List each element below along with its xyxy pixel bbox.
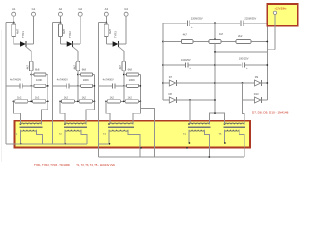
wire common to bottom bus (140, 108, 154, 157)
T5 secondary coil (225, 130, 240, 131)
svg-text:4k7: 4k7 (118, 65, 122, 70)
svg-text:1k2: 1k2 (35, 96, 40, 100)
svg-text:4M7: 4M7 (62, 28, 66, 34)
wire between 1k2s (28, 100, 33, 102)
cathode wire (26, 43, 34, 45)
T1 core line 1 (19, 125, 42, 127)
wire cap to 100k (22, 85, 34, 87)
capacitor C4 plate (241, 62, 243, 67)
node 1k2 left (13, 101, 15, 103)
T1 secondary coil (20, 130, 36, 131)
left rail (5, 23, 7, 144)
resistor 6k8 ch2 (81, 73, 93, 76)
secondary return wire (6, 143, 87, 145)
wire supply to rail (267, 49, 275, 51)
svg-text:4n7/400V: 4n7/400V (57, 77, 68, 81)
wire between 1k2s (120, 100, 125, 102)
node stem/100k (30, 85, 32, 87)
left rail (52, 23, 54, 144)
svg-text:1k2: 1k2 (17, 96, 22, 100)
resistor 4k7 ch2 (76, 61, 80, 71)
T2 core line 2 (64, 127, 87, 129)
svg-text:4n7/400V: 4n7/400V (103, 77, 114, 81)
svg-text:220M/35V: 220M/35V (244, 16, 256, 20)
highlighted transformer block (15, 121, 251, 148)
anode wire (106, 43, 112, 45)
T2 primary dot (64, 123, 66, 125)
svg-text:100K: 100K (129, 78, 135, 82)
svg-text:1k2: 1k2 (110, 96, 115, 100)
D10 cathode bar (261, 97, 263, 103)
wire A1 down (13, 16, 15, 22)
svg-text:100K: 100K (83, 78, 89, 82)
wire rail to capacitor (6, 85, 20, 87)
terminal G2 (78, 12, 82, 16)
wire rail to capacitor (98, 85, 112, 87)
svg-text:1k2: 1k2 (64, 96, 69, 100)
wire D7 to column (176, 82, 215, 84)
wire D10 to rail (262, 99, 268, 101)
node 1k2 left (59, 101, 61, 103)
wire 100k right (46, 85, 48, 87)
node right leg/100k (94, 85, 96, 87)
capacitor C1 220M/35V plate (186, 20, 188, 26)
gate wire down (30, 51, 32, 61)
node D9 row (242, 82, 244, 84)
terminal A3 (104, 12, 108, 16)
resistor 1k2a ch3 (107, 100, 120, 103)
resistor 4k7 osc (181, 40, 193, 44)
node column 52 (214, 51, 216, 53)
node stem/100k (77, 85, 79, 87)
node column/D8 (214, 99, 216, 101)
T4 core line 1 (188, 125, 210, 127)
stem down (77, 71, 79, 102)
wire 1k2b right (138, 100, 140, 102)
svg-text:TYR1: TYR1 (21, 31, 25, 38)
primary feed fan T4 T5 (209, 113, 224, 124)
wire to 6k8 (124, 74, 127, 76)
node D8/T4 (189, 99, 191, 101)
capacitor plate (68, 83, 70, 88)
junction strip bottom a (140, 147, 142, 149)
node stem/100k (123, 85, 125, 87)
wire to left rail (98, 22, 106, 24)
resistor 100K ch1 (34, 84, 46, 87)
trimmer 1M (209, 40, 221, 44)
resistor 4M7 ch1 (12, 24, 16, 37)
wire resistor to anode (13, 37, 15, 44)
svg-text:A2: A2 (59, 7, 63, 11)
D8 cathode bar (175, 97, 177, 103)
svg-text:D7: D7 (169, 75, 173, 79)
right supply rail (266, 23, 268, 100)
T4 secondary dot (189, 142, 191, 144)
resistor 4M7 ch3 (104, 24, 108, 37)
node rail/C4 (266, 64, 268, 66)
node right leg/100k (139, 85, 141, 87)
resistor 4k7 ch3 (122, 61, 126, 71)
T4 secondary coil (189, 130, 204, 131)
wire G2 down (79, 16, 81, 44)
svg-text:D7, D8, D9, D10 - 1N4148: D7, D8, D9, D10 - 1N4148 (252, 111, 289, 115)
T5 core line 2 (224, 127, 246, 129)
T4 T5 secondary right legs (204, 130, 209, 157)
node rail/2k2 (266, 41, 268, 43)
top supply wire mid (190, 22, 240, 24)
T3 secondary left link (98, 143, 109, 145)
T1 primary coil (20, 123, 41, 124)
stem down (123, 71, 125, 102)
thyristor TYR2 (67, 41, 73, 46)
resistor 1k2a ch1 (15, 100, 28, 103)
resistor 1k2a ch2 (61, 100, 74, 103)
gate wire down (123, 51, 125, 61)
thyristor cathode bar (72, 41, 74, 47)
wire between 1k2s (75, 100, 80, 102)
terminal G3 (124, 12, 128, 16)
T3 core line 2 (108, 127, 134, 129)
svg-text:100/25V: 100/25V (181, 58, 191, 62)
T4 secondary left leg (188, 130, 190, 143)
wire resistor to anode (105, 37, 107, 44)
wire resistor to anode (59, 37, 61, 44)
wire supply down (274, 15, 276, 50)
svg-text:220M/35V: 220M/35V (191, 16, 203, 20)
T5 core line 1 (224, 125, 246, 127)
svg-text:4k7: 4k7 (72, 65, 76, 70)
resistor 6k8 ch3 (127, 73, 139, 76)
left rail to bottom bus (97, 23, 99, 158)
node A3 (105, 22, 107, 24)
left rail oscillator (162, 23, 164, 100)
T4 core line 2 (188, 127, 210, 129)
T1 secondary dot (20, 143, 22, 145)
wire 6k8 right (93, 74, 95, 76)
wire rail corner to D8 (163, 99, 169, 101)
wire 1k2b right (93, 100, 95, 102)
wire to 6k8 (78, 74, 81, 76)
svg-text:TYR2: TYR2 (68, 31, 72, 38)
anode wire (60, 43, 66, 45)
wire A2 down (59, 16, 61, 22)
svg-text:1k2: 1k2 (82, 96, 87, 100)
thyristor cathode bar (118, 41, 120, 47)
node column/C3 (214, 64, 216, 66)
node rail/D9 (266, 82, 268, 84)
T1 secondary left leg (19, 130, 21, 144)
T3 primary dot (108, 123, 110, 125)
node stem/6k8 (123, 74, 125, 76)
bottom common bus (98, 156, 244, 158)
T5 primary dot (224, 123, 226, 125)
diode D9 (255, 80, 261, 86)
svg-text:2k2: 2k2 (238, 34, 243, 38)
T2 secondary left leg (64, 130, 66, 144)
T2 secondary coil (65, 130, 81, 131)
node A1 (13, 22, 15, 24)
node stem/6k8 (30, 74, 32, 76)
right leg (93, 75, 95, 102)
svg-text:6k8: 6k8 (35, 68, 40, 72)
svg-text:G1: G1 (32, 7, 36, 11)
secondary return chain T1-T3 (37, 130, 43, 144)
node stem/1k2 (30, 101, 32, 103)
svg-text:G2: G2 (78, 7, 82, 11)
svg-text:A1: A1 (12, 7, 16, 11)
T2 core line 1 (64, 125, 87, 127)
T3 secondary coil (109, 130, 128, 131)
gate wire down (77, 51, 79, 61)
gate lead (26, 47, 31, 51)
wire A3 down (105, 16, 107, 22)
diode D10 (255, 97, 261, 103)
capacitor 4n7 ch2 plate (66, 83, 68, 88)
node fan (214, 112, 216, 114)
wire to left rail (53, 22, 61, 24)
wire cap to 100k (69, 85, 81, 87)
diode D7 (169, 80, 175, 86)
trimmer wiper wire (214, 23, 216, 38)
capacitor plate (114, 83, 116, 88)
svg-text:A3: A3 (105, 7, 109, 11)
wire rail to capacitor (53, 85, 67, 87)
terminal A1 (12, 12, 16, 16)
wire column to C4 (215, 64, 242, 66)
node stem/1k2 (77, 101, 79, 103)
wire D9 to rail (262, 82, 268, 84)
node right leg/1k2 (94, 101, 96, 103)
wire 6k8 right (46, 74, 48, 76)
wire to transformer primary right (133, 101, 140, 124)
svg-text:4M7: 4M7 (15, 28, 19, 34)
resistor 100K ch2 (81, 84, 93, 87)
wire G3 down (125, 16, 127, 44)
capacitor C2 plate (242, 20, 244, 26)
D9 cathode bar (261, 80, 263, 86)
T3 primary coil (109, 123, 133, 124)
wire G1 down (33, 16, 35, 44)
thyristor TYR3 (113, 41, 119, 46)
svg-text:D10: D10 (254, 92, 259, 96)
faint page edge (0, 30, 2, 162)
stem down (30, 71, 32, 102)
wire column to rail (215, 51, 267, 53)
gate lead (73, 47, 78, 51)
anode wire (14, 43, 20, 45)
cathode wire (73, 43, 81, 45)
svg-text:100K: 100K (36, 78, 42, 82)
wire to 6k8 (31, 74, 34, 76)
wire to transformer primary right (42, 101, 48, 124)
T4 primary dot (188, 123, 190, 125)
svg-text:+12V/50Hz: +12V/50Hz (275, 8, 288, 11)
svg-text:6k8: 6k8 (128, 68, 133, 72)
svg-text:TYR1, TYR2, TYR3 - TIC106D: TYR1, TYR2, TYR3 - TIC106D (34, 163, 70, 167)
T3 secondary dot (109, 143, 111, 145)
svg-text:4k7: 4k7 (183, 33, 188, 37)
wire to D7 (163, 82, 169, 84)
terminal G1 (32, 12, 36, 16)
capacitor plate (21, 83, 23, 88)
wire to T4 primary left (189, 100, 191, 124)
right leg (139, 75, 141, 102)
diode D8 (169, 97, 175, 103)
svg-text:D8: D8 (169, 92, 173, 96)
capacitor C1 plate (189, 20, 191, 26)
supply terminal box (highlighted) (267, 4, 297, 26)
wire to transformer primary left (60, 101, 65, 124)
resistor 4k7 ch1 (29, 61, 33, 71)
wire to D10 (243, 99, 255, 101)
T3 core line 1 (108, 125, 134, 127)
resistor 4M7 ch2 (58, 24, 62, 37)
junction strip bottom b (186, 147, 188, 149)
T5 primary coil (225, 123, 245, 124)
svg-text:4k7: 4k7 (26, 65, 30, 70)
wire to transformer primary right (86, 101, 94, 124)
resistor 1k2b ch1 (33, 100, 46, 103)
resistor 1k2b ch3 (125, 100, 138, 103)
resistor 1k2b ch2 (79, 100, 92, 103)
node stem/1k2 (123, 101, 125, 103)
wire 2k2 to rail (251, 41, 267, 43)
cathode wire (119, 43, 127, 45)
T3 secondary left leg (108, 130, 110, 144)
node right leg/1k2 (139, 101, 141, 103)
svg-text:T1, T2, T3, T4, T5 - 110/24V 2: T1, T2, T3, T4, T5 - 110/24V 2VA (76, 163, 115, 167)
node column/D7 (214, 82, 216, 84)
terminal A2 (58, 12, 62, 16)
wire C3 to column (188, 64, 215, 66)
top supply wire right (243, 22, 267, 24)
svg-text:1k2: 1k2 (128, 96, 133, 100)
wire 6k8 right (139, 74, 141, 76)
node rail/D7 (162, 82, 164, 84)
svg-text:G3: G3 (124, 7, 128, 11)
node stem/6k8 (77, 74, 79, 76)
wire to transformer primary left (106, 101, 110, 124)
junction bus/T4 leg (208, 156, 210, 158)
right leg (47, 75, 49, 102)
node 1k2 left (105, 101, 107, 103)
capacitor C4 plate (244, 62, 246, 67)
wire to 4k7 (163, 41, 181, 43)
capacitor C3 plate (187, 62, 189, 67)
svg-text:4n7/400V: 4n7/400V (10, 77, 21, 81)
terminal supply (273, 11, 276, 14)
wire C4 to rail (245, 64, 268, 66)
thyristor cathode bar (25, 41, 27, 47)
wire D9 node to T5 primary right (243, 83, 245, 124)
node top/trimmer (214, 22, 216, 24)
wire column to D9 (215, 82, 255, 84)
T5 secondary dot (224, 142, 226, 144)
T2 secondary dot (64, 143, 66, 145)
capacitor C2 220M/35V plate (240, 20, 242, 26)
node rail/C3 (162, 64, 164, 66)
center column (214, 44, 216, 114)
wire cap to 100k (115, 85, 127, 87)
T2 primary coil (65, 123, 86, 124)
D7 cathode bar (175, 80, 177, 86)
node A2 (60, 22, 62, 24)
wire D8 to column (176, 99, 215, 101)
node rail/4k7 (162, 41, 164, 43)
T4 primary coil (189, 123, 209, 124)
wire 1k2b right (46, 100, 48, 102)
node right leg/1k2 (47, 101, 49, 103)
wire to transformer primary left (13, 101, 20, 124)
svg-text:4M7: 4M7 (108, 28, 112, 34)
wire to left rail (6, 22, 14, 24)
capacitor C3 plate (185, 62, 187, 67)
svg-text:100/25V: 100/25V (239, 57, 249, 61)
capacitor 4n7 ch3 plate (112, 83, 114, 88)
top supply wire left (163, 22, 187, 24)
svg-text:6k8: 6k8 (82, 68, 87, 72)
svg-text:TYR3: TYR3 (114, 31, 118, 38)
wire trimmer to 2k2 (221, 41, 236, 43)
node right leg/100k (47, 85, 49, 87)
T5 secondary left leg (224, 130, 226, 143)
wire 100k right (93, 85, 95, 87)
resistor 100K ch3 (127, 84, 139, 87)
resistor 6k8 ch1 (34, 73, 46, 76)
svg-text:D9: D9 (255, 75, 259, 79)
T1 core line 2 (19, 127, 42, 129)
wire 100k right (139, 85, 141, 87)
capacitor 4n7 ch1 plate (19, 83, 21, 88)
wire 4k7 to trimmer (193, 41, 209, 43)
gate lead (119, 47, 124, 51)
resistor 2k2 (236, 40, 251, 44)
T1 primary dot (20, 123, 22, 125)
thyristor TYR1 (20, 41, 26, 46)
wire to C3 (163, 64, 185, 66)
